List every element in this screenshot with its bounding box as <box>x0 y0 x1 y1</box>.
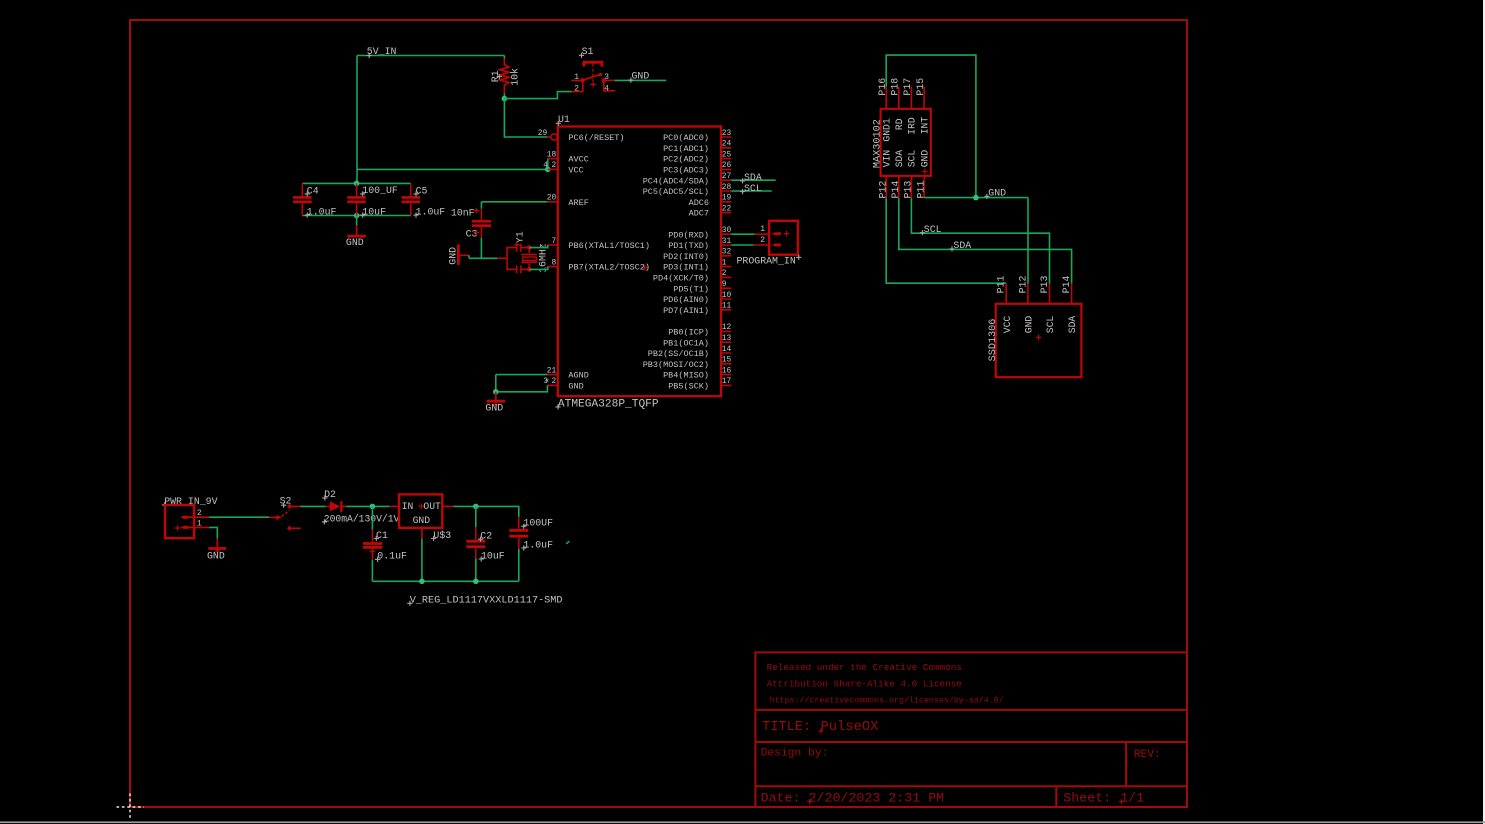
ground rail <box>372 580 518 582</box>
svg-text:Date:: Date: <box>761 791 801 806</box>
wire AGND <box>496 375 548 392</box>
wire diode to regulator <box>346 505 389 507</box>
svg-text:P11: P11 <box>915 181 926 199</box>
svg-text:SDA: SDA <box>744 172 762 183</box>
svg-text:PB2(SS/OC1B): PB2(SS/OC1B) <box>648 349 709 359</box>
regulator GND pin <box>421 528 423 539</box>
wire GND rail <box>924 197 1028 199</box>
junction <box>493 389 499 395</box>
svg-text:7: 7 <box>551 237 556 246</box>
svg-text:13: 13 <box>722 334 732 343</box>
svg-text:Y1: Y1 <box>515 231 526 243</box>
svg-text:SCL: SCL <box>744 183 762 194</box>
regulator U$3 <box>399 494 442 528</box>
wire to S1 pin2 <box>504 92 571 99</box>
svg-text:1.0uF: 1.0uF <box>416 206 446 217</box>
wire pin1 to gnd <box>209 527 217 538</box>
svg-text:P13: P13 <box>1039 276 1050 294</box>
wire OUT <box>442 505 453 507</box>
svg-text:PC3(ADC3): PC3(ADC3) <box>663 166 709 176</box>
svg-text:IN: IN <box>402 501 414 512</box>
capacitor C1 <box>371 506 373 529</box>
svg-text:3: 3 <box>604 73 609 82</box>
svg-text:32: 32 <box>722 248 732 257</box>
MAX30102 box <box>881 109 931 176</box>
wire resonator to pin8 <box>529 267 548 270</box>
svg-text:P12: P12 <box>1017 276 1028 294</box>
svg-text:GND: GND <box>919 150 930 168</box>
svg-text:PD7(AIN1): PD7(AIN1) <box>663 306 709 316</box>
svg-text:10uF: 10uF <box>362 206 386 217</box>
svg-text:1: 1 <box>760 225 765 234</box>
origin cross <box>922 169 928 175</box>
window bottom edge <box>0 821 1485 823</box>
svg-text:PB4(MISO): PB4(MISO) <box>663 371 709 381</box>
svg-text:GND: GND <box>485 403 503 414</box>
svg-text:PD2(INT0): PD2(INT0) <box>663 252 709 262</box>
svg-text:ADC6: ADC6 <box>689 198 709 208</box>
wire 5V_IN horizontal <box>357 55 504 57</box>
svg-text:PD5(T1): PD5(T1) <box>673 284 709 294</box>
wire gnd rail to resonator <box>469 255 497 258</box>
svg-text:×: × <box>545 377 549 384</box>
wire resonator to pin7 <box>529 245 548 248</box>
svg-text:4: 4 <box>604 85 609 94</box>
svg-text:SDA: SDA <box>894 150 905 168</box>
capacitor 100_UF (10uF) <box>347 183 366 215</box>
pin 1 stub <box>189 526 210 528</box>
svg-text:VIN: VIN <box>881 150 892 168</box>
svg-text:GND: GND <box>988 188 1006 199</box>
svg-text:PB7(XTAL2/TOSC2): PB7(XTAL2/TOSC2) <box>568 263 650 273</box>
svg-text:PulseOX: PulseOX <box>821 719 880 735</box>
svg-text:AGND: AGND <box>568 371 588 381</box>
svg-text:8: 8 <box>551 258 556 267</box>
S1 pin numbers <box>574 73 609 94</box>
svg-text:10nF: 10nF <box>451 208 475 219</box>
capacitor 100UF <box>509 517 528 549</box>
svg-text:AVCC: AVCC <box>568 155 588 165</box>
svg-text:GND: GND <box>1024 316 1035 334</box>
wire SDA <box>899 198 1072 284</box>
junction reg GND <box>419 579 425 585</box>
top pin stubs P16 P18 P17 P15 <box>886 87 924 109</box>
svg-text:20: 20 <box>547 194 557 203</box>
pin 2 contact <box>772 244 781 247</box>
svg-text:PB3(MOSI/OC2): PB3(MOSI/OC2) <box>643 360 709 370</box>
svg-text:1: 1 <box>722 258 727 267</box>
svg-text:PD3(INT1): PD3(INT1) <box>663 263 709 273</box>
svg-text:Sheet:: Sheet: <box>1063 791 1111 806</box>
capacitor C5 <box>402 183 421 215</box>
connector box <box>769 221 798 255</box>
svg-text:PC2(ADC2): PC2(ADC2) <box>663 155 709 165</box>
inner pin names <box>1002 316 1078 334</box>
svg-text:GND: GND <box>207 550 225 561</box>
wire SDA pin27 <box>731 179 775 181</box>
svg-text:P14: P14 <box>1061 276 1072 294</box>
svg-text:31: 31 <box>722 237 732 246</box>
svg-text:V_REG_LD1117VXXLD1117-SMD: V_REG_LD1117VXXLD1117-SMD <box>410 596 563 607</box>
ground symbol (rotated) <box>460 254 469 256</box>
svg-text:Attribution Share-Alike 4.0 Li: Attribution Share-Alike 4.0 License <box>767 679 962 690</box>
svg-text:PD1(TXD): PD1(TXD) <box>668 241 709 251</box>
U1 left pin names <box>568 133 650 391</box>
pin 2 stub <box>189 516 210 518</box>
wire VIN to SSD VCC <box>886 198 1006 283</box>
inner pin names top row <box>881 117 930 142</box>
svg-text:C4: C4 <box>307 185 319 196</box>
junction OUT <box>473 504 479 510</box>
svg-text:PB5(SCK): PB5(SCK) <box>668 382 709 392</box>
svg-text:TITLE:: TITLE: <box>762 720 811 735</box>
origin crosshair <box>117 806 145 808</box>
svg-text:22: 22 <box>722 204 732 213</box>
svg-text:SSD1306: SSD1306 <box>988 319 999 362</box>
U1 left pin numbers <box>538 129 557 386</box>
svg-text:P17: P17 <box>902 78 913 96</box>
svg-text:C3: C3 <box>466 229 478 240</box>
window right edge <box>1483 0 1485 824</box>
svg-text:17: 17 <box>722 377 732 386</box>
svg-text:SCL: SCL <box>1045 316 1056 334</box>
SSD1306 box <box>996 304 1082 377</box>
svg-text:4: 4 <box>543 161 548 170</box>
svg-text:PD4(XCK/T0): PD4(XCK/T0) <box>653 274 709 284</box>
svg-text:100_UF: 100_UF <box>362 185 398 196</box>
svg-text:C2: C2 <box>480 531 492 542</box>
svg-text:C1: C1 <box>376 530 388 541</box>
wire caps top rail <box>302 182 411 184</box>
svg-text:Design by:: Design by: <box>761 747 829 759</box>
svg-text:P11: P11 <box>996 276 1007 294</box>
svg-text:12: 12 <box>722 323 732 332</box>
pin 1 contact <box>772 232 781 235</box>
svg-text:SDA: SDA <box>953 240 971 251</box>
wire C3 to gnd rail <box>480 238 482 258</box>
junction bottom rail <box>354 213 360 219</box>
svg-text:GND1: GND1 <box>881 118 892 141</box>
svg-text:24: 24 <box>722 140 732 149</box>
svg-text:2: 2 <box>722 269 727 278</box>
resistor R1 <box>500 59 509 94</box>
wire GND pin <box>496 385 548 391</box>
svg-text:27: 27 <box>722 172 732 181</box>
svg-text:2: 2 <box>551 161 556 170</box>
capacitor C2 <box>475 506 477 527</box>
svg-text:PB6(XTAL1/TOSC1): PB6(XTAL1/TOSC1) <box>568 241 650 251</box>
svg-text:ADC7: ADC7 <box>689 209 709 219</box>
svg-text:PB0(ICP): PB0(ICP) <box>668 328 709 338</box>
svg-text:D2: D2 <box>324 489 336 500</box>
svg-text:REV:: REV: <box>1134 749 1161 761</box>
wire R1 top <box>503 56 505 59</box>
svg-text:PC6(/RESET): PC6(/RESET) <box>568 133 624 143</box>
svg-text:25: 25 <box>722 150 732 159</box>
U1 left pin stubs <box>547 159 557 386</box>
svg-text:28: 28 <box>722 183 732 192</box>
wire SCL <box>911 198 1049 284</box>
svg-text:SCL: SCL <box>907 150 918 168</box>
drawing frame <box>130 20 1187 807</box>
bottom pin stubs P12 P14 P13 P11 <box>886 176 924 198</box>
U1 box <box>558 127 721 397</box>
junction C1 <box>370 504 376 510</box>
junction top rail <box>354 181 360 187</box>
wire pin30 to connector pin1 <box>731 233 754 235</box>
svg-text:PC1(ADC1): PC1(ADC1) <box>663 144 709 154</box>
wire AREF down to C3 <box>480 202 482 209</box>
svg-text:SCL: SCL <box>924 224 942 235</box>
U1 right pin names <box>643 133 709 391</box>
svg-text:GND: GND <box>346 237 364 248</box>
svg-text:26: 26 <box>722 161 732 170</box>
wire SCL pin28 <box>731 190 772 192</box>
svg-text:10: 10 <box>722 291 732 300</box>
wire VCC horizontal <box>357 168 548 170</box>
svg-text:2/20/2023 2:31 PM: 2/20/2023 2:31 PM <box>809 791 945 806</box>
wire caps bottom rail <box>302 215 411 217</box>
svg-text:30: 30 <box>722 226 732 235</box>
svg-text:P14: P14 <box>890 181 901 199</box>
top pin stubs <box>1006 283 1071 304</box>
junction R1 <box>502 96 508 102</box>
svg-text:Released under the Creative Co: Released under the Creative Commons <box>767 662 962 673</box>
junction C2 <box>473 579 479 585</box>
svg-text:C5: C5 <box>416 185 428 196</box>
capacitor C3 <box>472 209 491 238</box>
U1 right pin numbers <box>722 129 732 386</box>
svg-text:PB1(OC1A): PB1(OC1A) <box>663 338 709 348</box>
wire pin2 to switch <box>209 516 269 518</box>
title block text <box>761 662 1161 806</box>
wire pin31 to connector pin2 <box>731 244 753 246</box>
svg-text:PD0(RXD): PD0(RXD) <box>668 230 709 240</box>
junction VCC <box>545 167 551 173</box>
svg-text:21: 21 <box>547 366 557 375</box>
svg-text:2: 2 <box>760 236 765 245</box>
pin29 /RESET stub and bubble <box>547 136 550 138</box>
svg-text:PC0(ADC0): PC0(ADC0) <box>663 133 709 143</box>
wire GND1 up and over <box>886 55 976 198</box>
wire GND rail down to SSD P12 <box>1027 198 1029 284</box>
svg-text:GND: GND <box>413 515 431 526</box>
svg-text:https://creativecommons.org/li: https://creativecommons.org/licenses/by-… <box>770 695 1004 705</box>
ground symbol <box>356 226 358 235</box>
wire 100UF to rail <box>518 549 520 581</box>
svg-text:19: 19 <box>722 194 732 203</box>
wire AREF <box>481 201 547 203</box>
U1 right pin stubs <box>721 137 731 385</box>
svg-text:11: 11 <box>722 302 732 311</box>
svg-text:PC5(ADC5/SCL): PC5(ADC5/SCL) <box>643 187 709 197</box>
origin cross <box>1036 335 1042 341</box>
svg-text:AREF: AREF <box>568 198 588 208</box>
svg-text:U$3: U$3 <box>433 530 451 541</box>
svg-text:2: 2 <box>574 85 579 94</box>
svg-text:10k: 10k <box>510 68 521 86</box>
wire AVCC-VCC vertical <box>547 159 549 170</box>
svg-text:0.1uF: 0.1uF <box>377 551 407 562</box>
title block <box>755 652 1187 807</box>
svg-text:OUT: OUT <box>423 501 441 512</box>
pin 1 contact <box>180 526 188 529</box>
wire mid cap to GND <box>356 216 358 226</box>
svg-text:VCC: VCC <box>568 166 583 176</box>
svg-text:14: 14 <box>722 345 732 354</box>
capacitor C4 <box>293 183 312 215</box>
svg-text:ATMEGA328P_TQFP: ATMEGA328P_TQFP <box>558 398 659 410</box>
wire to RESET pin29 <box>504 99 547 137</box>
svg-text:1/1: 1/1 <box>1120 791 1144 806</box>
svg-text:P13: P13 <box>903 181 914 199</box>
svg-text:SDA: SDA <box>1067 316 1078 334</box>
svg-text:P15: P15 <box>915 78 926 96</box>
svg-text:RD: RD <box>894 118 905 130</box>
svg-text:IRD: IRD <box>907 117 918 135</box>
svg-text:GND: GND <box>568 382 583 392</box>
svg-text:200mA/130V/1V: 200mA/130V/1V <box>324 513 400 524</box>
wire S1 to GND label <box>615 79 667 81</box>
svg-text:9: 9 <box>722 280 727 289</box>
svg-text:2: 2 <box>551 377 556 386</box>
wire switch to diode <box>300 505 326 507</box>
ground symbol <box>495 392 497 403</box>
svg-text:16: 16 <box>722 366 732 375</box>
svg-text:1.0uF: 1.0uF <box>307 206 337 217</box>
svg-text:29: 29 <box>538 129 548 138</box>
svg-text:100UF: 100UF <box>523 518 553 529</box>
U1 origin cross <box>642 265 648 271</box>
svg-text:INT: INT <box>919 117 930 135</box>
svg-text:10uF: 10uF <box>481 550 505 561</box>
stray green tick <box>566 541 569 544</box>
svg-text:23: 23 <box>722 129 732 138</box>
svg-text:15: 15 <box>722 356 732 365</box>
svg-text:GND: GND <box>632 70 650 81</box>
svg-text:PROGRAM_IN: PROGRAM_IN <box>737 255 796 266</box>
pin 2 contact <box>180 516 188 519</box>
svg-text:PD6(AIN0): PD6(AIN0) <box>663 295 709 305</box>
wire R1 bottom <box>503 94 505 99</box>
svg-text:GND: GND <box>448 247 459 265</box>
wire 5V_IN left vertical <box>356 56 358 184</box>
svg-text:VCC: VCC <box>1002 316 1013 334</box>
junction GND <box>973 195 979 201</box>
svg-text:P12: P12 <box>877 181 888 199</box>
ground symbol <box>216 539 218 551</box>
svg-text:PC4(ADC4/SDA): PC4(ADC4/SDA) <box>643 176 709 186</box>
svg-text:1.0uF: 1.0uF <box>523 539 553 550</box>
svg-text:P18: P18 <box>890 78 901 96</box>
svg-text:18: 18 <box>547 150 557 159</box>
pushbutton S1 <box>571 62 615 91</box>
inner pin names bottom row <box>881 150 930 168</box>
resonator Y1 16MHz <box>497 244 537 273</box>
svg-text:1: 1 <box>574 73 579 82</box>
